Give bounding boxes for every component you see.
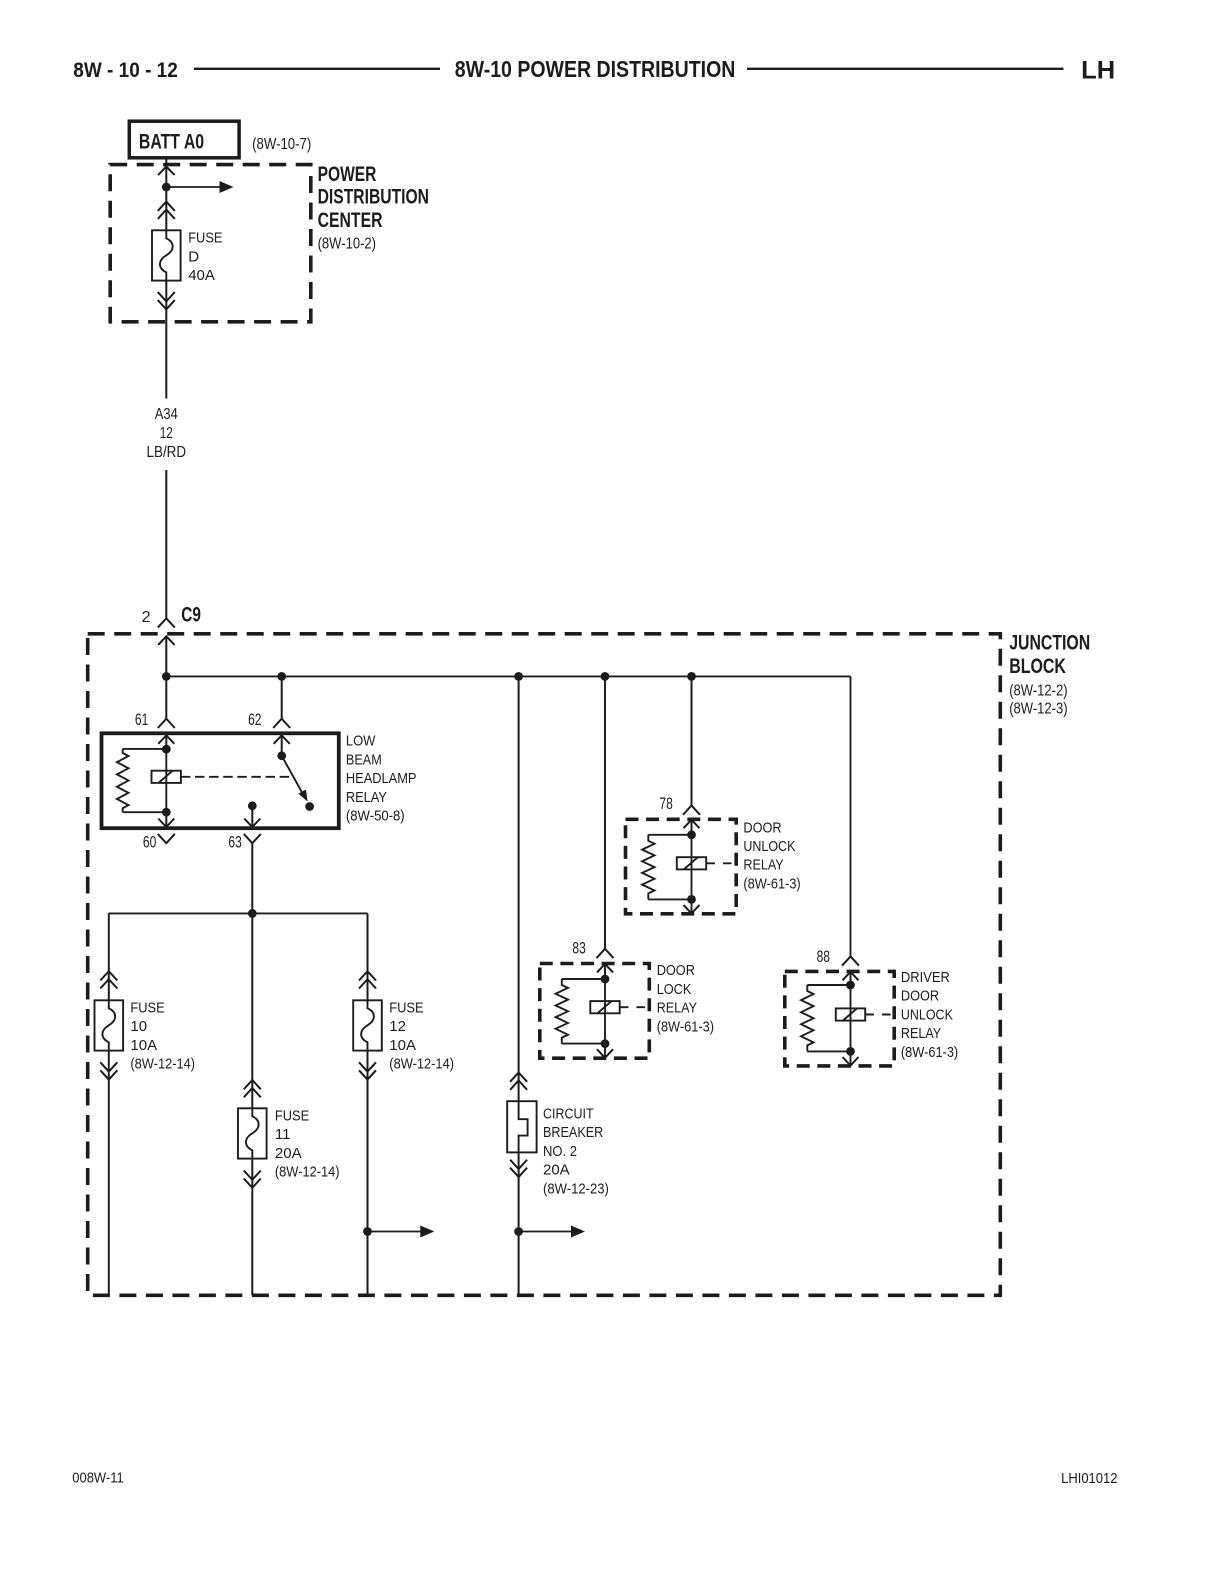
node coil bottom [601,1039,610,1048]
svg-text:(8W-12-2): (8W-12-2) [1009,682,1067,699]
svg-text:008W-11: 008W-11 [72,1470,123,1487]
node coil top [846,981,855,990]
node pin 63 contact [248,801,257,810]
svg-text:8W-10 POWER DISTRIBUTION: 8W-10 POWER DISTRIBUTION [455,56,736,82]
node bus at door lock relay branch [601,672,610,681]
svg-text:RELAY: RELAY [346,789,387,806]
svg-text:JUNCTION: JUNCTION [1009,631,1090,654]
svg-text:UNLOCK: UNLOCK [901,1006,953,1023]
bus wire right drop [850,676,852,956]
coil resistor [801,985,813,1051]
connector double chevron above fuse 12 [359,971,376,980]
node fuse 12 output [363,1227,372,1236]
node relay coil bottom [162,808,171,817]
svg-text:DRIVER: DRIVER [901,969,950,986]
wire below fuse 11 [251,1159,253,1296]
low beam headlamp relay box [102,733,339,828]
svg-text:DISTRIBUTION: DISTRIBUTION [318,186,429,209]
wire from BATT A0 into PDC [165,158,167,165]
node breaker output [514,1227,523,1236]
svg-text:BREAKER: BREAKER [543,1124,603,1141]
relay coil resistor [117,749,129,812]
pin 60 wire inside relay [165,812,167,827]
fuse 11 [238,1108,267,1158]
svg-text:(8W-61-3): (8W-61-3) [657,1018,714,1035]
pin 62 arrow into relay [274,735,290,744]
in-line connector double chevron [158,202,175,211]
svg-text:DOOR: DOOR [901,988,939,1005]
wire to fuse 12 [367,913,369,1000]
pin arrow out of relay [691,899,693,913]
svg-text:63: 63 [228,832,241,851]
svg-text:78: 78 [659,794,672,813]
svg-text:FUSE: FUSE [275,1108,309,1125]
node: PDC feed junction [162,183,171,192]
svg-text:20A: 20A [543,1162,570,1179]
in-line connector double chevron down [158,300,175,309]
svg-text:(8W-10-2): (8W-10-2) [318,235,376,252]
BATT A0 box [129,121,239,158]
svg-text:60: 60 [143,832,156,851]
pin 60 connector chevron [158,834,175,843]
coil top wire [807,984,850,986]
svg-text:62: 62 [248,710,261,729]
wire bus to relay 83 [604,676,606,948]
node sub-bus [248,909,257,918]
node switch pivot [277,751,286,760]
connector double chevron below fuse 12 [359,1070,376,1079]
pin arrow into relay [843,972,859,981]
svg-text:2: 2 [142,609,151,626]
svg-text:POWER: POWER [318,163,377,186]
relay coil box [152,771,181,783]
arrow breaker to other circuits [519,1231,572,1233]
door lock relay dashed box [540,964,650,1059]
svg-text:DOOR: DOOR [657,962,695,979]
wire through coil [850,985,852,1051]
wire through relay coil [165,749,167,812]
svg-text:RELAY: RELAY [657,1000,697,1017]
wire through coil [604,979,606,1044]
svg-text:RELAY: RELAY [743,857,783,874]
svg-text:A34: A34 [155,406,178,423]
svg-text:CENTER: CENTER [318,209,383,232]
svg-text:FUSE: FUSE [389,999,423,1016]
PDC pin arrow [158,167,174,176]
svg-text:(8W-61-3): (8W-61-3) [743,875,800,892]
svg-text:(8W-12-14): (8W-12-14) [130,1056,195,1073]
svg-text:BEAM: BEAM [346,751,382,768]
svg-text:(8W-10-7): (8W-10-7) [252,136,311,153]
node bus at pin 62 [277,672,286,681]
svg-text:10A: 10A [130,1037,157,1054]
svg-text:(8W-50-8): (8W-50-8) [346,808,405,825]
svg-text:FUSE: FUSE [188,230,222,247]
svg-text:40A: 40A [188,267,215,284]
relay coil box [677,857,706,869]
wire below fuse 12 [367,1051,369,1296]
arrow to other PDC circuits [166,186,220,188]
node bus at pin 61 [162,672,171,681]
pin 61 arrow into relay [158,735,174,744]
wire below breaker [518,1152,520,1295]
sub-bus horizontal wire [109,912,368,914]
svg-text:LHI01012: LHI01012 [1061,1470,1117,1487]
svg-text:BATT A0: BATT A0 [139,131,204,154]
svg-text:(8W-12-23): (8W-12-23) [543,1180,609,1197]
svg-text:UNLOCK: UNLOCK [743,838,795,855]
relay coil top wire [123,748,167,750]
power distribution center dashed box [110,165,311,322]
pin arrow out of relay [604,1044,606,1058]
svg-text:12: 12 [160,425,173,442]
svg-text:RELAY: RELAY [901,1025,941,1042]
svg-text:LB/RD: LB/RD [147,444,187,461]
pin 78 connector chevron [683,806,700,815]
coil resistor [642,835,654,900]
coil resistor [556,979,568,1044]
svg-text:CIRCUIT: CIRCUIT [543,1106,594,1123]
junction block dashed border [88,634,1001,1296]
connector double chevron above fuse 11 [244,1080,261,1089]
door unlock relay dashed box [626,819,737,914]
pin 61 connector chevron [158,719,175,728]
arrow fuse 12 to other circuits [368,1231,421,1233]
pin 63 arrow out of relay [244,819,260,828]
svg-text:10: 10 [130,1018,147,1035]
svg-text:61: 61 [135,710,148,729]
node bus at door unlock relay branch [687,672,696,681]
svg-text:20A: 20A [275,1145,302,1162]
pin 62 connector chevron [273,719,290,728]
fuse D [152,230,181,280]
connector double chevron below fuse 10 [100,1070,117,1079]
coil link stub [620,1006,650,1008]
pin 60 arrow out of relay [158,819,174,828]
node coil top [687,830,696,839]
svg-text:HEADLAMP: HEADLAMP [346,770,417,787]
wire A34 upper segment [165,322,167,399]
fuse 12 [353,1000,382,1050]
bus wire horizontal [166,675,850,677]
node switch contact [305,802,314,811]
coil top wire [562,978,605,980]
connector double chevron above fuse 10 [100,971,117,980]
pin arrow into relay [684,820,700,829]
pin 63 connector chevron [244,834,261,843]
svg-text:8W - 10 - 12: 8W - 10 - 12 [73,59,178,82]
junction block pin arrow [158,636,174,645]
pin arrow out of relay [850,1051,852,1065]
connector C9 chevron [158,618,175,627]
header rule left [194,68,440,70]
node coil top [601,975,610,984]
relay coil box [590,1001,619,1013]
svg-text:11: 11 [275,1126,291,1143]
svg-text:DOOR: DOOR [743,819,781,836]
svg-text:12: 12 [389,1018,406,1035]
wire bus to pin 61 [281,676,283,718]
pin 83 connector chevron [597,949,614,958]
wire to fuse 11 [251,913,253,1108]
node coil bottom [687,895,696,904]
svg-text:FUSE: FUSE [130,999,164,1016]
coil top wire [648,834,691,836]
wire fuse D to PDC border [165,281,167,322]
connector double chevron below breaker [510,1168,527,1177]
wire to fuse 10 [108,913,110,1000]
svg-text:(8W-12-3): (8W-12-3) [1009,700,1067,717]
coil link stub [706,862,736,864]
coil bottom wire [648,898,691,900]
svg-text:C9: C9 [181,604,201,627]
wire node to fuse D [165,187,167,230]
node coil bottom [846,1047,855,1056]
node relay coil top [162,745,171,754]
svg-text:83: 83 [572,939,585,958]
svg-text:LOW: LOW [346,733,376,750]
relay coil bottom wire [123,811,167,813]
coil bottom wire [562,1043,605,1045]
svg-text:LOCK: LOCK [657,981,692,998]
relay actuate dashed link [181,776,293,778]
pin 88 connector chevron [842,956,859,965]
fuse 10 [95,1000,124,1050]
svg-text:(8W-61-3): (8W-61-3) [901,1044,958,1061]
wire through coil [691,835,693,900]
svg-text:LH: LH [1081,57,1115,85]
relay coil box [836,1008,865,1020]
connector double chevron above breaker [510,1073,527,1082]
node bus at circuit breaker branch [514,672,523,681]
circuit breaker no. 2 [507,1101,536,1152]
svg-text:NO. 2: NO. 2 [543,1143,577,1160]
wire bus to relay 78 [691,676,693,805]
svg-text:(8W-12-14): (8W-12-14) [275,1164,340,1181]
coil bottom wire [807,1050,850,1052]
svg-text:D: D [188,248,199,265]
header rule right [747,68,1064,70]
svg-text:(8W-12-14): (8W-12-14) [389,1056,454,1073]
pin 63 wire inside relay [251,806,253,827]
svg-text:88: 88 [817,947,830,966]
svg-text:10A: 10A [389,1037,416,1054]
wire C9 pin to bus [165,636,167,718]
wire below fuse 10 [108,1051,110,1296]
wire A34 lower segment [165,470,167,618]
connector double chevron below fuse 11 [244,1179,261,1188]
driver door unlock relay dashed box [785,971,894,1066]
relay switch arm [282,756,302,793]
coil link stub [865,1014,894,1016]
wire pin 63 down [251,843,253,913]
svg-text:BLOCK: BLOCK [1009,655,1066,678]
wire bus to circuit breaker [518,676,520,1101]
pin arrow into relay [597,964,613,973]
